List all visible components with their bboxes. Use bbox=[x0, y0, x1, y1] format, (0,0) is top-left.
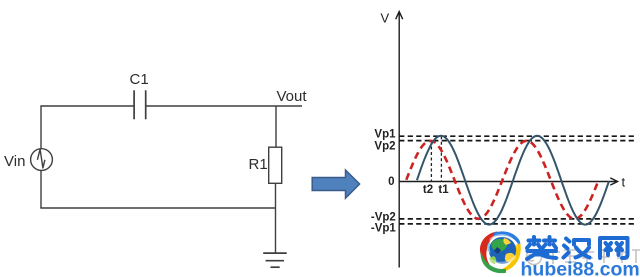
dashed vertical t2 bbox=[430, 141, 432, 182]
ground bar 2 bbox=[266, 260, 284, 262]
t axis arrowhead bbox=[610, 178, 617, 185]
char 汉 bbox=[564, 239, 570, 258]
V axis bbox=[398, 13, 400, 268]
capacitor C1 right plate bbox=[145, 90, 147, 119]
watermark logo swirl blue arc bbox=[494, 231, 520, 248]
source Vin circle bbox=[31, 149, 53, 171]
V axis arrowhead bbox=[396, 12, 403, 20]
watermark logo globe bbox=[486, 234, 518, 265]
block arrow bbox=[312, 170, 359, 198]
watermark logo swirl green arc bbox=[481, 251, 506, 273]
char 网 bbox=[600, 238, 628, 258]
wire: junction down to resistor bbox=[275, 106, 277, 147]
wire: resistor bottom to ground bbox=[275, 183, 277, 253]
dashed line Vp2 bbox=[399, 140, 637, 142]
dashed line -Vp1 bbox=[399, 223, 637, 225]
watermark logo swirl yellow arc bbox=[493, 244, 521, 273]
blue sine (Vin waveform) bbox=[417, 136, 609, 225]
dashed vertical t1 bbox=[440, 136, 442, 181]
wire: top horizontal right segment bbox=[146, 105, 302, 107]
ground bar 1 bbox=[263, 252, 287, 254]
wire: left vertical upper bbox=[40, 105, 42, 149]
watermark logo swirl red crescent bbox=[480, 232, 499, 267]
dashed line Vp1 bbox=[399, 135, 637, 137]
wire: top horizontal left segment bbox=[41, 105, 134, 107]
dashed line -Vp2 bbox=[399, 218, 637, 220]
ground bar 3 bbox=[271, 266, 280, 268]
source sine symbol bbox=[37, 149, 45, 168]
wire: bottom horizontal bbox=[40, 207, 276, 209]
wire: left vertical lower bbox=[40, 170, 42, 208]
capacitor C1 left plate bbox=[133, 90, 135, 119]
char 楚 bbox=[527, 237, 556, 248]
t axis bbox=[399, 181, 616, 183]
resistor R1 box bbox=[269, 147, 282, 183]
watermark gray text row bbox=[507, 250, 640, 265]
red dashed sine (Vout waveform) bbox=[406, 141, 598, 219]
